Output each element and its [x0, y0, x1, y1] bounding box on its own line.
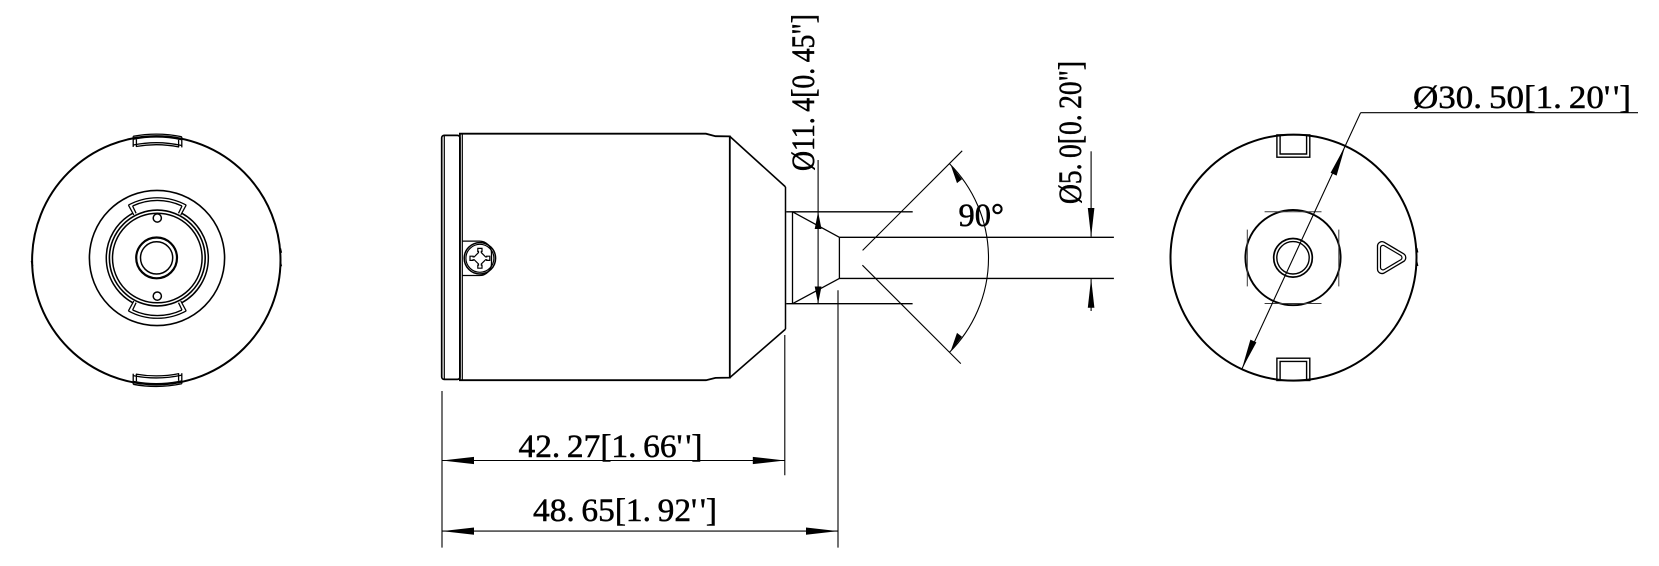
countersink bottom taper — [793, 278, 840, 303]
extension line countersink — [837, 290, 839, 547]
angle ray lower — [862, 265, 960, 363]
rear bottom notch — [1277, 358, 1310, 380]
triangle marker inner — [1380, 245, 1402, 270]
front housing left edge nub — [32, 261, 33, 267]
arrow D11.4 up — [815, 212, 822, 229]
rear top notch — [1277, 135, 1310, 157]
front middle ring circle — [89, 190, 224, 325]
lens carrier mid circle — [109, 210, 205, 306]
cable hole inner ring — [1277, 242, 1309, 274]
cone bottom edge — [730, 329, 786, 378]
dim line D30.50 diagonal — [1242, 113, 1361, 370]
rear cap inner edge line — [443, 136, 445, 380]
triangle marker outer — [1377, 242, 1405, 274]
rear housing right edge nub lower — [1417, 262, 1418, 267]
carrier top tab — [128, 198, 186, 215]
svg-text:90°: 90° — [959, 198, 1005, 234]
carrier bottom tab — [128, 301, 186, 318]
leader shelf D30.50 — [1361, 112, 1638, 114]
dim line D11.4 — [817, 160, 819, 303]
arrow 48.65 right — [806, 528, 838, 535]
barrel tangent tick bottom — [1265, 303, 1322, 305]
arrow D11.4 down — [815, 287, 822, 304]
dim line 42.27 — [442, 460, 785, 462]
arrow 42.27 left — [442, 457, 474, 464]
svg-text:Ø30. 50[1. 20' ']: Ø30. 50[1. 20' '] — [1413, 80, 1631, 116]
countersink inner face — [838, 237, 840, 278]
barrel rim face — [792, 212, 794, 304]
arrow D5.0 up — [1088, 278, 1095, 307]
arrow D30.50 lower — [1242, 340, 1257, 370]
arrow D30.50 upper — [1331, 146, 1346, 176]
camera body outline — [460, 134, 730, 381]
arrow 48.65 left — [442, 528, 474, 535]
lens outer ring — [136, 238, 177, 279]
barrel tangent tick left — [1246, 230, 1248, 287]
lens inner ring — [141, 242, 173, 274]
barrel tangent tick top — [1265, 211, 1322, 213]
barrel top line — [786, 211, 913, 213]
extension line cone face — [784, 335, 786, 475]
front housing right edge nub lower — [280, 262, 281, 267]
cable top line — [839, 236, 1114, 238]
lens carrier inner circle — [113, 213, 203, 303]
front housing right edge nub upper — [280, 248, 281, 253]
countersink top taper — [793, 212, 840, 238]
phillips recess — [470, 248, 490, 268]
front housing outer circle — [32, 136, 280, 384]
carrier screw hole top — [153, 214, 161, 222]
arrow D5.0 down — [1088, 208, 1095, 237]
dim line D5.0 upper — [1090, 151, 1092, 236]
lens carrier outer arc left — [106, 213, 133, 303]
rear barrel circle — [1245, 210, 1340, 305]
angle arrow lower — [951, 333, 962, 352]
body front joint line — [461, 134, 463, 381]
extension line left — [441, 391, 443, 548]
svg-text:Ø11. 4[0. 45"]: Ø11. 4[0. 45"] — [786, 14, 822, 171]
lens carrier outer arc right — [182, 213, 209, 303]
cable bottom line — [839, 277, 1114, 279]
dim line D5.0 lower — [1090, 279, 1092, 311]
dim line 48.65 — [442, 530, 838, 532]
svg-text:48. 65[1. 92' ']: 48. 65[1. 92' '] — [533, 493, 717, 529]
svg-text:Ø5. 0[0. 20"]: Ø5. 0[0. 20"] — [1053, 61, 1089, 204]
rear housing right edge nub upper — [1417, 248, 1418, 253]
cone top edge — [730, 136, 786, 187]
carrier screw hole bottom — [153, 292, 161, 300]
screw head inner circle — [466, 244, 494, 272]
angle arc — [949, 164, 988, 353]
front housing bottom tab — [133, 373, 182, 386]
screw boss — [462, 241, 491, 275]
angle arrow upper — [951, 165, 962, 184]
rear housing outer circle — [1171, 135, 1417, 381]
cable hole outer ring — [1274, 238, 1313, 277]
screw head outer circle — [464, 243, 495, 274]
svg-text:42. 27[1. 66' ']: 42. 27[1. 66' '] — [519, 429, 703, 465]
arrow 42.27 right — [753, 457, 785, 464]
barrel bottom line — [786, 303, 912, 305]
cone end face — [785, 187, 787, 329]
rear cap rectangle — [442, 135, 460, 379]
angle ray upper — [863, 151, 963, 251]
barrel tangent tick right — [1338, 230, 1340, 287]
front housing top tab — [133, 134, 182, 147]
